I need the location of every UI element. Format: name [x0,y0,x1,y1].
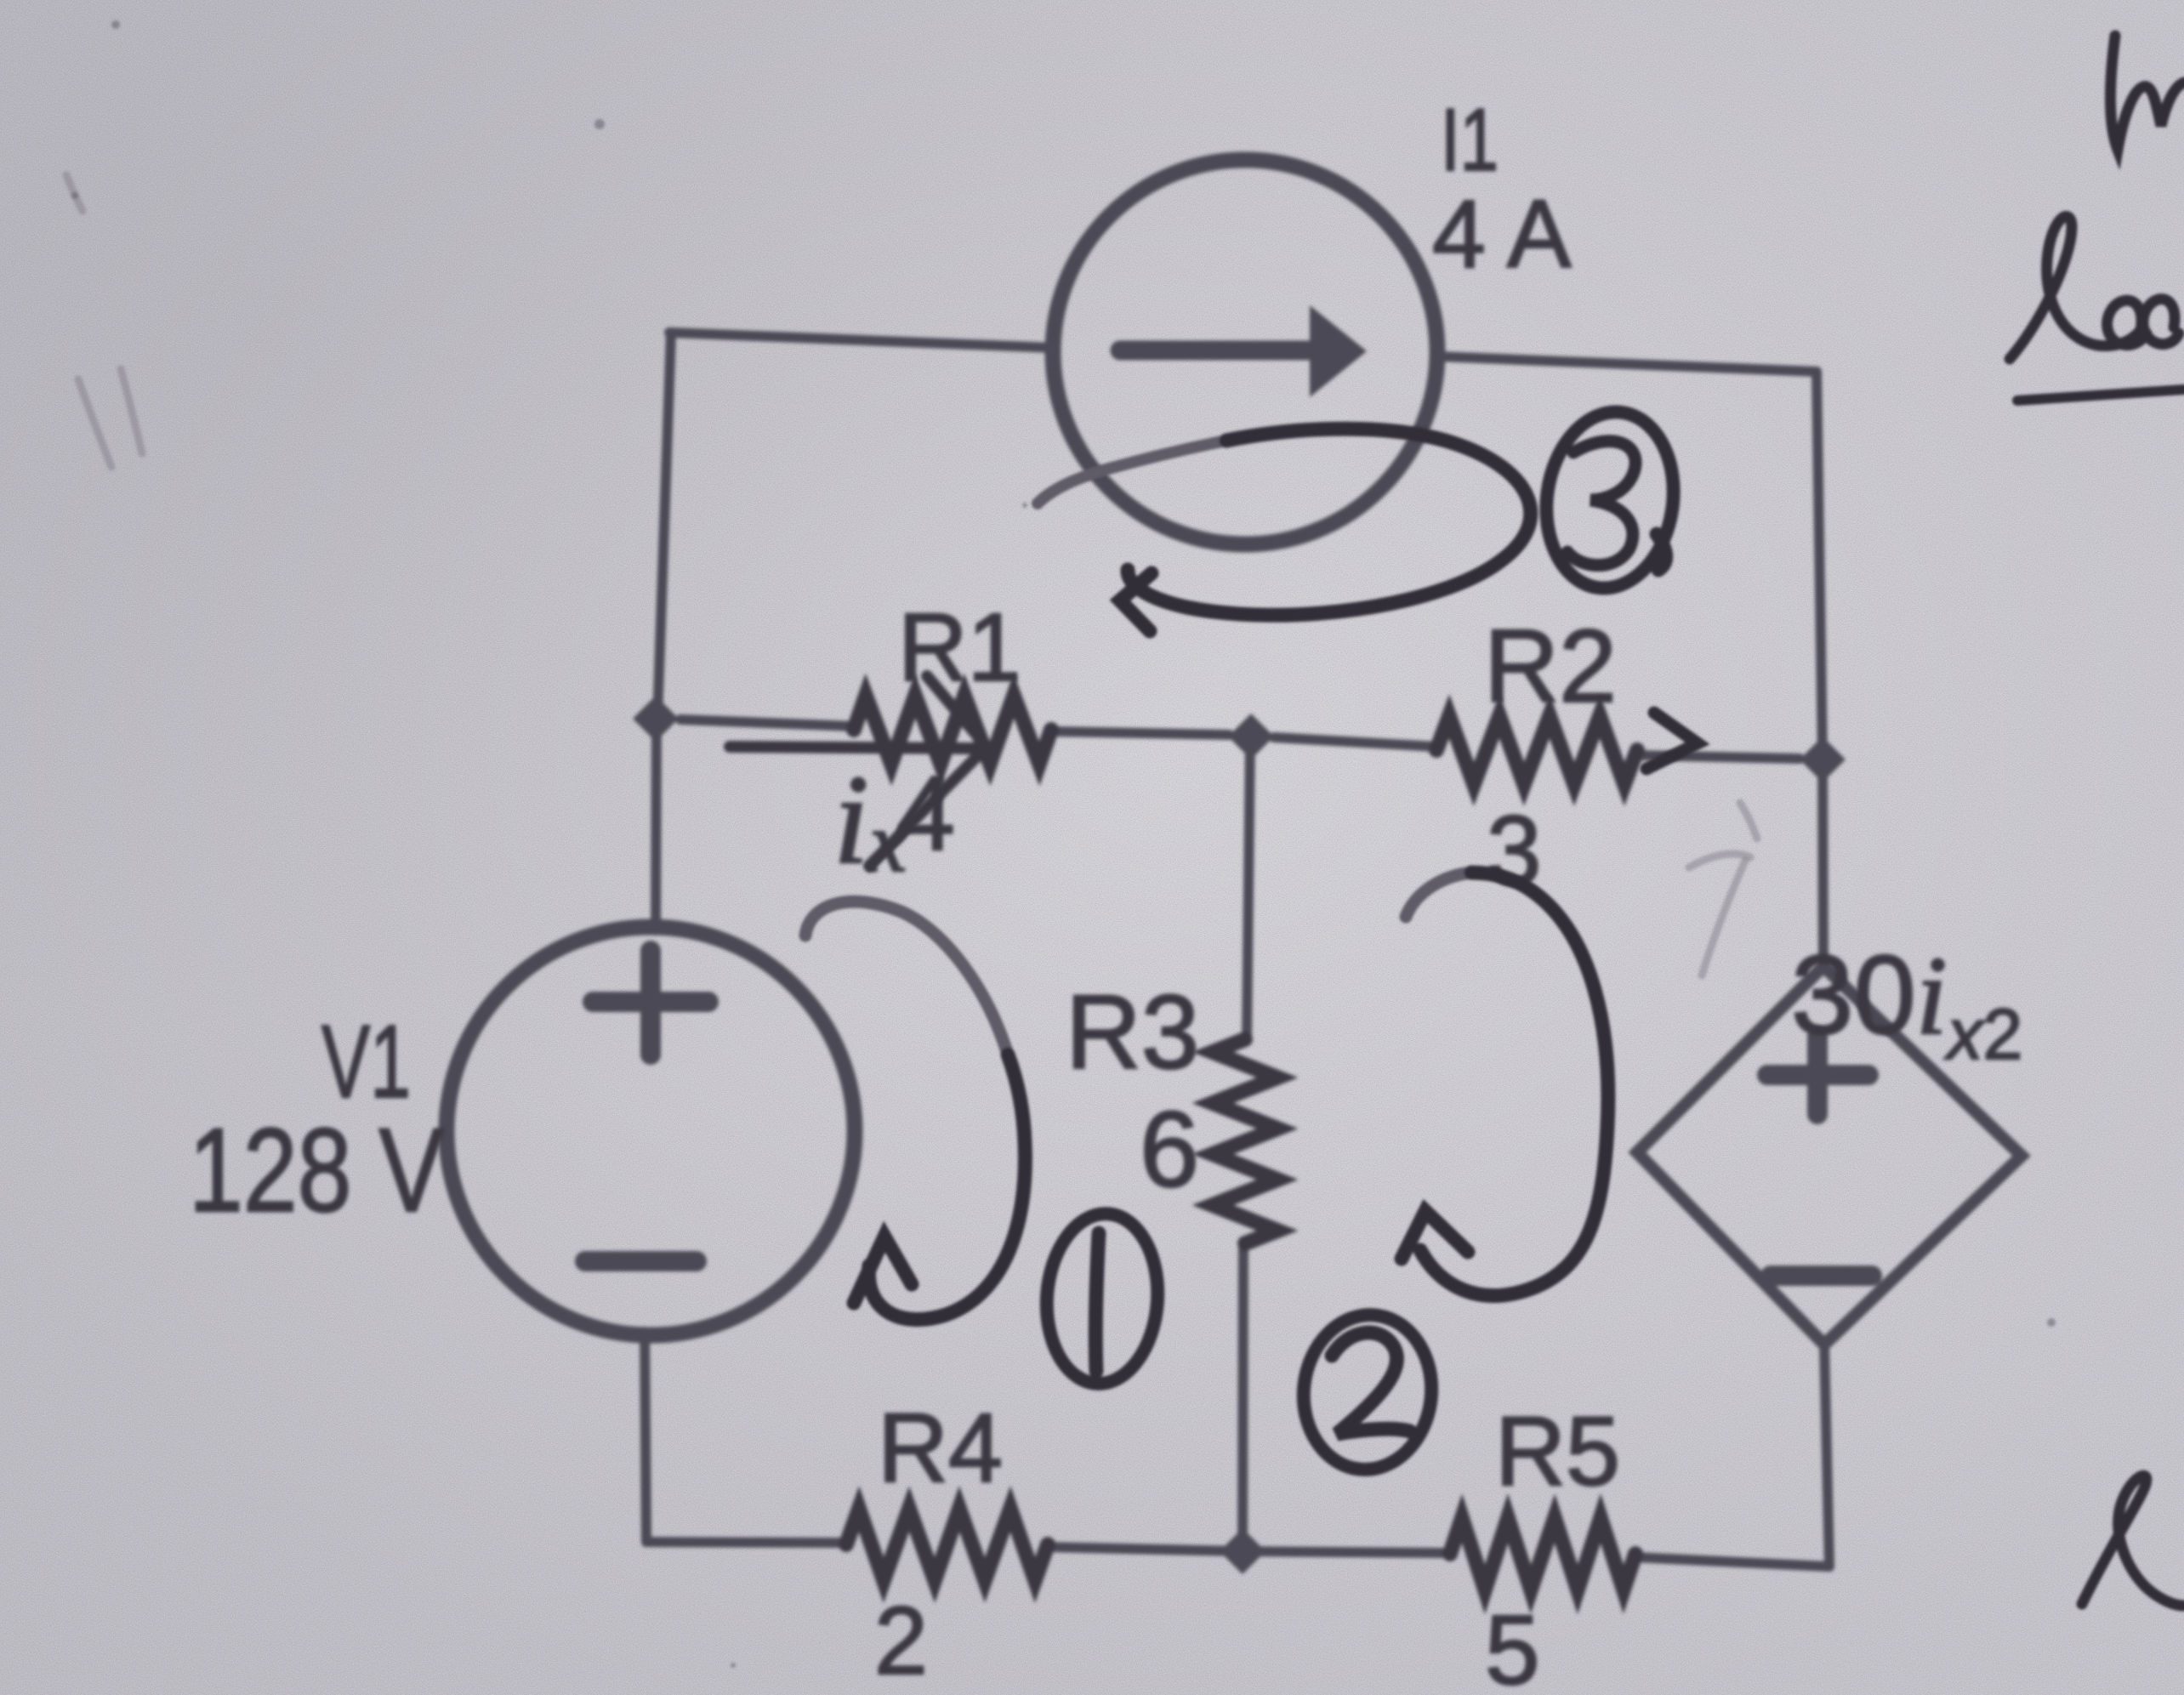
svg-text:128 V: 128 V [189,1103,444,1237]
svg-text:V1: V1 [321,1004,411,1119]
svg-text:R3: R3 [1066,975,1199,1091]
svg-text:R1: R1 [898,594,1021,701]
svg-text:I1: I1 [1441,91,1499,190]
svg-text:R4: R4 [878,1394,1003,1503]
svg-text:R2: R2 [1484,608,1617,724]
svg-text:2: 2 [874,1587,928,1694]
svg-text:5: 5 [1485,1595,1540,1695]
svg-text:R5: R5 [1495,1397,1620,1506]
svg-text:4 A: 4 A [1432,180,1572,287]
svg-text:6: 6 [1140,1089,1199,1209]
